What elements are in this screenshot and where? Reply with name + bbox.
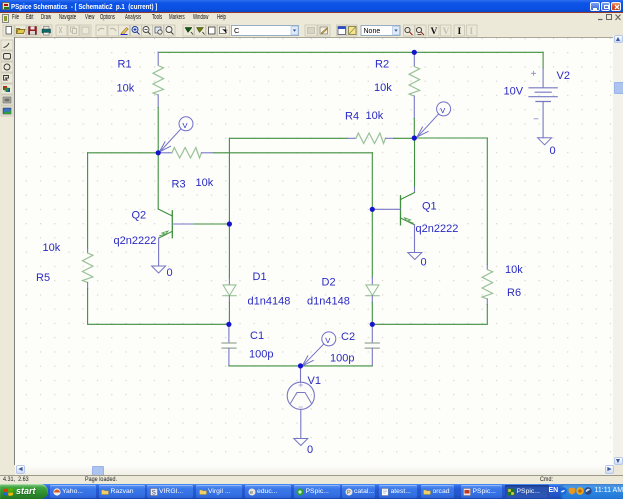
wire V2 top lead <box>542 52 544 68</box>
svg-text:D1: D1 <box>253 271 267 283</box>
svg-text:Q2: Q2 <box>132 209 147 221</box>
flag 2 <box>197 28 204 33</box>
probe I icon <box>416 27 421 32</box>
wire R6 branch down <box>486 138 488 265</box>
wire R4 to node B <box>394 137 414 139</box>
save <box>29 27 37 35</box>
resistor R3 <box>158 151 172 153</box>
junction D1-C1 <box>226 321 231 326</box>
wire node B right to R6 branch <box>414 137 487 139</box>
draw wire pencil <box>121 28 128 36</box>
wire top rail <box>158 51 543 53</box>
source V1 <box>300 365 302 381</box>
svg-text:0: 0 <box>550 145 556 157</box>
svg-text:R5: R5 <box>36 272 50 284</box>
svg-text:10k: 10k <box>117 82 135 94</box>
resistor R5 <box>87 248 89 253</box>
toolbar <box>0 24 623 37</box>
resistor R2 <box>413 52 415 66</box>
svg-text:q2n2222: q2n2222 <box>114 235 157 247</box>
ground 0 below Q1 <box>408 252 422 259</box>
junction node A <box>156 150 161 155</box>
svg-text:V: V <box>325 336 330 345</box>
svg-text:I: I <box>458 27 462 37</box>
resistor R4 <box>348 137 357 139</box>
box with arrow <box>220 27 226 34</box>
flag 1 <box>185 28 192 33</box>
transistor Q1 <box>414 138 416 188</box>
wire R5 bottom to bottom-left rail <box>88 288 229 324</box>
cut copy paste greyed <box>59 27 62 33</box>
svg-text:V: V <box>183 121 188 130</box>
marker V2m at node B <box>417 101 451 136</box>
wire bottom center rail <box>229 364 372 366</box>
wire node A left to R5 branch <box>88 151 159 153</box>
ground 0 below V2 <box>538 137 552 144</box>
MDI child buttons <box>597 13 623 23</box>
svg-text:C1: C1 <box>250 330 264 342</box>
wire R3 to Q1 base branch <box>214 151 372 153</box>
svg-text:None: None <box>364 28 381 35</box>
probe V icon <box>405 27 410 32</box>
svg-text:R3: R3 <box>172 178 186 190</box>
svg-text:Q1: Q1 <box>422 200 437 212</box>
battery V2 <box>529 87 557 96</box>
capacitor C2 <box>371 324 373 343</box>
wire R1 to node A <box>157 107 159 152</box>
left tool strip <box>0 37 15 465</box>
print <box>42 29 51 33</box>
svg-text:10V: 10V <box>504 85 524 97</box>
svg-text:V: V <box>443 27 450 37</box>
svg-text:100p: 100p <box>330 352 354 364</box>
svg-text:C2: C2 <box>341 331 355 343</box>
svg-text:C: C <box>234 26 240 35</box>
taskbar <box>0 484 623 499</box>
horizontal scrollbar <box>15 465 613 475</box>
junction Q2 base <box>227 221 232 226</box>
stamp icon <box>320 27 328 34</box>
marker V1m at node A <box>160 116 194 151</box>
zoom in <box>132 27 138 33</box>
svg-text:V: V <box>431 27 438 37</box>
zoom out <box>143 27 149 33</box>
svg-text:P: P <box>347 490 351 496</box>
wire Q2 base branch vertical <box>228 138 230 224</box>
junction D2-C2 <box>370 321 375 326</box>
svg-text:R1: R1 <box>118 58 132 70</box>
menu bar <box>0 12 623 24</box>
resistor R6 <box>486 264 488 269</box>
svg-text:R2: R2 <box>375 58 389 70</box>
window icon yellow <box>349 27 357 35</box>
zoom page <box>166 27 172 33</box>
diode D1 <box>228 224 230 278</box>
vertical scrollbar <box>613 35 623 465</box>
diode D2 <box>371 209 373 277</box>
junction top of R2 <box>412 49 417 54</box>
resistor R1 <box>157 52 159 65</box>
wire R6 bottom to bottom-right rail <box>372 304 487 324</box>
svg-text:V: V <box>440 106 445 115</box>
ground 0 below Q2 <box>152 266 166 273</box>
wire left branch down <box>87 152 89 248</box>
svg-text:10k: 10k <box>196 177 214 189</box>
svg-text:S: S <box>151 490 155 496</box>
wire R2 to node B <box>413 118 415 138</box>
svg-text:I: I <box>470 27 474 37</box>
C combo <box>232 26 299 36</box>
svg-text:q2n2222: q2n2222 <box>416 223 459 235</box>
svg-text:10k: 10k <box>374 82 392 94</box>
svg-text:R6: R6 <box>507 287 521 299</box>
window icon blue <box>338 27 346 35</box>
white box <box>209 27 216 34</box>
svg-text:V2: V2 <box>557 70 570 82</box>
wire Q2 base rail to R4 <box>229 137 347 139</box>
junction Q1 base <box>370 206 375 211</box>
svg-text:0: 0 <box>307 444 313 456</box>
button frames <box>3 25 477 36</box>
svg-text:R4: R4 <box>345 110 359 122</box>
title bar <box>0 0 623 12</box>
svg-text:d1n4148: d1n4148 <box>248 295 291 307</box>
transistor Q2 <box>157 152 159 208</box>
svg-text:d1n4148: d1n4148 <box>307 295 350 307</box>
svg-text:D2: D2 <box>322 276 336 288</box>
open <box>17 29 26 34</box>
None combo <box>361 26 400 36</box>
svg-text:10k: 10k <box>366 110 384 122</box>
svg-text:e: e <box>250 490 253 496</box>
zoom area <box>155 27 161 33</box>
svg-text:V1: V1 <box>308 375 321 387</box>
status bar <box>0 475 623 484</box>
undo redo greyed <box>98 28 104 31</box>
junction node B <box>412 135 417 140</box>
svg-text:0: 0 <box>421 256 427 268</box>
svg-text:10k: 10k <box>43 242 61 254</box>
marker V3m at V1 node <box>302 331 336 365</box>
svg-text:0: 0 <box>167 267 173 279</box>
junction V1 top <box>298 363 303 368</box>
new <box>6 27 12 35</box>
ground 0 below V1 <box>294 438 308 445</box>
capacitor C1 <box>228 324 230 343</box>
svg-text:10k: 10k <box>505 264 523 276</box>
greyed edit attr <box>308 28 315 34</box>
svg-text:100p: 100p <box>249 348 273 360</box>
